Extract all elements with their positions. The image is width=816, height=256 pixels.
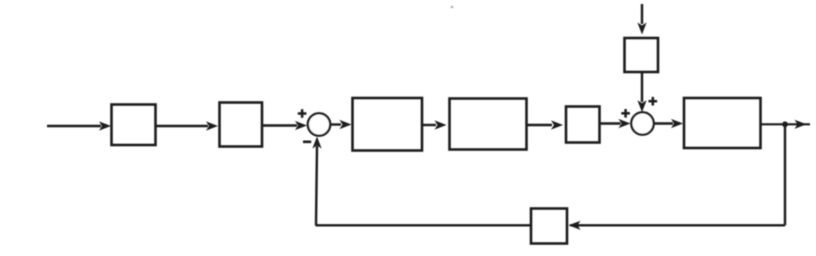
arrowhead output: [795, 120, 807, 129]
block 8 feedback: [531, 209, 567, 244]
plus sign at S1 input: [298, 109, 307, 118]
wire block5 to summing junction S2: [600, 122, 621, 124]
wire input R: [47, 125, 101, 127]
plus sign at S2 left input: [621, 109, 630, 118]
speck artifact: [451, 6, 454, 8]
block 7 disturbance: [625, 38, 659, 72]
arrowhead into summing junction S2: [619, 119, 631, 128]
arrowhead into S2 from top: [637, 100, 646, 112]
wire feedback right segment: [570, 224, 785, 226]
disturbance input arrow top: [641, 4, 643, 24]
arrowhead into S1 from below: [312, 137, 321, 149]
arrowhead into block 5: [551, 120, 563, 129]
arrowhead into block 2: [206, 121, 218, 130]
minus sign at S1 feedback input: [303, 141, 311, 144]
plus sign at S2 top input: [649, 97, 658, 106]
wire feedback up to S1: [316, 146, 317, 225]
block 1: [112, 105, 156, 146]
arrowhead into block 1: [99, 121, 111, 130]
arrowhead into block 6: [671, 119, 683, 128]
block 2: [220, 103, 263, 147]
arrowhead into block 7: [637, 23, 646, 35]
arrowhead into block 8: [569, 221, 581, 230]
wire block3 to block4: [422, 124, 436, 126]
wire block2 to summing junction S1: [262, 124, 297, 126]
summing junction S1: [308, 113, 330, 135]
wire feedback left segment: [316, 224, 532, 226]
wire S2 to block 6: [654, 122, 673, 124]
wire output: [761, 123, 811, 125]
wire junction down: [784, 124, 786, 225]
block 4: [450, 99, 527, 150]
arrowhead into block 3: [340, 120, 352, 129]
block 5: [566, 107, 600, 143]
junction dot: [782, 121, 788, 127]
block 6: [684, 98, 761, 148]
wire S1 to block 3: [330, 123, 341, 125]
wire block7 to S2: [641, 72, 643, 102]
block 3: [353, 98, 423, 151]
arrowhead into summing junction S1: [295, 121, 307, 130]
wire block1 to block2: [156, 125, 209, 127]
arrowhead into block 4: [435, 120, 447, 129]
wire block4 to block5: [527, 124, 553, 126]
summing junction S2: [631, 112, 653, 134]
